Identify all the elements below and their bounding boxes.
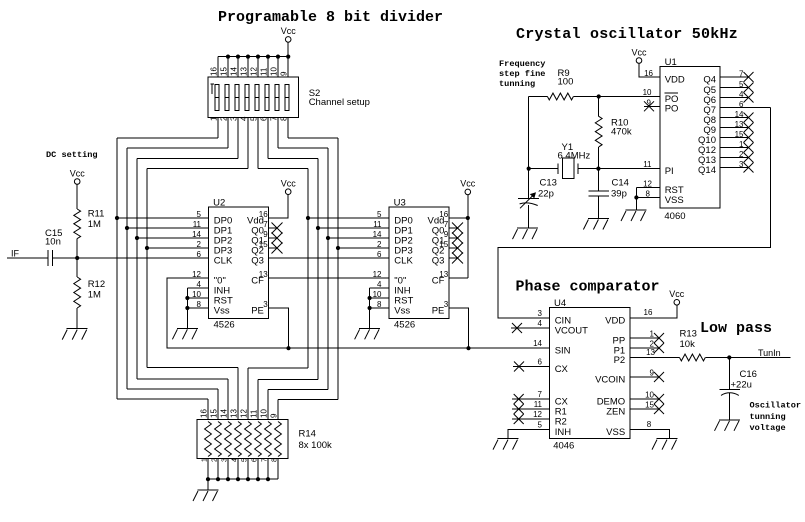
svg-text:8: 8 bbox=[646, 190, 651, 199]
wire DP taps to U3 bbox=[308, 218, 389, 248]
svg-text:SIN: SIN bbox=[555, 345, 571, 356]
svg-text:15: 15 bbox=[735, 130, 744, 139]
no-connect X U3 Q2 bbox=[449, 243, 463, 254]
svg-text:6.4MHz: 6.4MHz bbox=[558, 151, 591, 162]
svg-text:5: 5 bbox=[242, 458, 249, 462]
svg-text:7: 7 bbox=[739, 69, 744, 78]
svg-text:PI: PI bbox=[665, 166, 674, 177]
svg-text:8x 100k: 8x 100k bbox=[299, 440, 333, 451]
svg-text:1: 1 bbox=[202, 458, 209, 462]
svg-text:9: 9 bbox=[650, 369, 655, 378]
svg-text:7: 7 bbox=[263, 220, 268, 229]
wire S2 bottom pin drops bbox=[218, 118, 288, 169]
junction dot U3 PE rail bbox=[466, 346, 470, 350]
power Vcc (U4 VDD) bbox=[669, 289, 685, 305]
no-connect X U4 PP bbox=[630, 330, 664, 344]
wire U3 CF bbox=[449, 277, 468, 279]
svg-text:15: 15 bbox=[220, 67, 229, 76]
no-connect X U4 R1 bbox=[512, 404, 549, 414]
svg-text:100: 100 bbox=[558, 76, 574, 87]
svg-text:PE: PE bbox=[251, 305, 264, 316]
no-connect X U2 Q1 bbox=[269, 233, 283, 244]
svg-text:10n: 10n bbox=[45, 237, 61, 248]
svg-text:12: 12 bbox=[250, 67, 259, 76]
wire DP taps to U2 bbox=[117, 218, 209, 248]
junction dots U2 RST Vss bbox=[185, 296, 189, 310]
svg-text:14: 14 bbox=[192, 230, 201, 239]
ic U3 4526 bbox=[373, 198, 450, 331]
svg-text:11: 11 bbox=[534, 400, 543, 409]
U1 pin names bbox=[665, 74, 716, 206]
svg-text:P2: P2 bbox=[614, 355, 626, 366]
svg-text:INH: INH bbox=[555, 427, 572, 438]
ground (C16) bbox=[715, 420, 741, 431]
svg-text:IF: IF bbox=[11, 249, 20, 259]
ic U1 4060 bbox=[660, 57, 720, 222]
svg-text:2: 2 bbox=[377, 240, 382, 249]
svg-text:7: 7 bbox=[538, 390, 543, 399]
svg-text:15: 15 bbox=[439, 240, 448, 249]
svg-text:12: 12 bbox=[533, 410, 542, 419]
capacitor C16 22u bbox=[719, 358, 740, 420]
junction dots on S2 bus bbox=[226, 55, 290, 59]
svg-text:470k: 470k bbox=[611, 126, 632, 137]
pin stub U1 Q (3) bbox=[720, 160, 754, 173]
resistor R9 100 bbox=[529, 93, 660, 100]
wire nest upper-left horizontals bbox=[117, 138, 248, 168]
svg-text:Channel setup: Channel setup bbox=[309, 97, 370, 108]
svg-text:U3: U3 bbox=[394, 198, 406, 209]
ground (R12) bbox=[62, 329, 88, 340]
svg-text:11: 11 bbox=[250, 409, 259, 418]
pin numbers 16..9 on R14 top bbox=[200, 409, 279, 418]
switch S2 (DIP-8) bbox=[208, 77, 299, 118]
svg-text:Q3: Q3 bbox=[432, 255, 445, 266]
svg-text:11: 11 bbox=[643, 160, 652, 169]
svg-text:Vcc: Vcc bbox=[281, 179, 297, 189]
wire drops to R14 pins bbox=[208, 368, 278, 420]
capacitor C14 39p bbox=[589, 169, 610, 219]
power Vcc (S2 pullup) bbox=[281, 26, 297, 42]
pin numbers 1..8 on S2 bottom bbox=[210, 116, 289, 121]
svg-text:tunning: tunning bbox=[499, 79, 535, 89]
svg-text:R11: R11 bbox=[88, 209, 105, 220]
wire U1 RST/VSS bracket bbox=[636, 188, 660, 211]
svg-text:step fine: step fine bbox=[499, 69, 545, 79]
wire U4 VDD to Vcc bbox=[630, 305, 677, 318]
svg-text:16: 16 bbox=[259, 210, 268, 219]
svg-text:4: 4 bbox=[538, 319, 543, 328]
svg-text:13: 13 bbox=[230, 409, 239, 418]
svg-text:3: 3 bbox=[230, 116, 239, 121]
no-connect X U2 Q0 bbox=[269, 223, 283, 234]
no-connect X U4 CX6 bbox=[513, 362, 549, 372]
pin stub U1 Q (15) bbox=[720, 130, 754, 143]
junction dot R9/R10 bbox=[597, 94, 601, 98]
svg-text:11: 11 bbox=[193, 220, 202, 229]
svg-text:CLK: CLK bbox=[394, 255, 413, 266]
wire U4 P2 to R13 bbox=[630, 357, 680, 359]
svg-text:10: 10 bbox=[260, 409, 269, 418]
ground (U4 INH) bbox=[493, 439, 519, 450]
wire U4 VSS to ground bbox=[630, 430, 669, 439]
svg-text:Low pass: Low pass bbox=[700, 320, 772, 337]
svg-text:1M: 1M bbox=[88, 290, 101, 301]
junction dot lowpass bbox=[727, 355, 731, 359]
svg-text:PO: PO bbox=[665, 104, 679, 115]
svg-text:4046: 4046 bbox=[553, 441, 574, 452]
wire nest right verticals bbox=[308, 138, 338, 399]
svg-text:16: 16 bbox=[200, 409, 209, 418]
svg-text:15: 15 bbox=[645, 401, 654, 410]
resistor R12 1M bbox=[74, 258, 81, 308]
svg-text:14: 14 bbox=[220, 409, 229, 418]
pin stub U1 Q (5) bbox=[720, 80, 754, 93]
wire Vcc down to U3 CF bbox=[467, 195, 469, 278]
junction dots U2 DP taps bbox=[115, 216, 149, 250]
svg-text:R14: R14 bbox=[299, 429, 316, 440]
no-connect X U3 Q1 bbox=[449, 233, 463, 244]
svg-text:39p: 39p bbox=[611, 189, 627, 200]
svg-text:7: 7 bbox=[270, 116, 279, 121]
pin numbers 16..9 on S2 top bbox=[210, 67, 289, 76]
svg-text:Vcc: Vcc bbox=[281, 26, 297, 36]
ic U4 4046 bbox=[549, 298, 630, 452]
svg-text:R12: R12 bbox=[88, 279, 105, 290]
resistor network R14 8x 100k bbox=[197, 420, 288, 459]
wire U1 Q7 to U4 CIN bbox=[498, 108, 770, 319]
svg-text:4526: 4526 bbox=[214, 319, 235, 330]
wire R11 to junction bbox=[76, 239, 78, 258]
svg-text:U4: U4 bbox=[554, 298, 566, 309]
wire nest upper-right horizontals bbox=[258, 138, 338, 168]
wire nest lower-left horizontals bbox=[117, 368, 238, 400]
svg-text:2: 2 bbox=[212, 458, 219, 462]
svg-text:9: 9 bbox=[444, 230, 449, 239]
svg-text:2: 2 bbox=[197, 240, 202, 249]
crystal Y1 6.4MHz bbox=[558, 158, 578, 178]
svg-text:VDD: VDD bbox=[605, 315, 625, 326]
wire U2 "0" to rail bbox=[167, 278, 209, 348]
svg-text:22p: 22p bbox=[538, 188, 554, 199]
svg-text:6: 6 bbox=[538, 358, 543, 367]
svg-text:6: 6 bbox=[252, 458, 259, 462]
svg-text:13: 13 bbox=[240, 67, 249, 76]
resistor R11 1M bbox=[74, 209, 81, 239]
svg-text:16: 16 bbox=[210, 67, 219, 76]
svg-text:16: 16 bbox=[644, 308, 653, 317]
svg-text:11: 11 bbox=[373, 220, 382, 229]
svg-text:10: 10 bbox=[270, 67, 279, 76]
pin stub U1 Q (14) bbox=[720, 110, 754, 123]
svg-text:2: 2 bbox=[220, 116, 229, 121]
svg-text:9: 9 bbox=[270, 413, 279, 418]
svg-text:DC setting: DC setting bbox=[46, 150, 98, 160]
ground (C14) bbox=[583, 219, 609, 230]
junction dot U2 PE rail bbox=[286, 346, 290, 350]
svg-text:Oscillator: Oscillator bbox=[750, 401, 802, 411]
wire R12 to ground bbox=[76, 308, 78, 329]
svg-text:6: 6 bbox=[739, 100, 744, 109]
svg-text:4526: 4526 bbox=[394, 319, 415, 330]
svg-text:CX: CX bbox=[555, 364, 569, 375]
wire U2 PE down to rail bbox=[269, 308, 289, 348]
svg-text:3: 3 bbox=[263, 300, 268, 309]
svg-text:4: 4 bbox=[240, 116, 249, 121]
junction dot DC bias node bbox=[75, 256, 79, 260]
svg-text:Vss: Vss bbox=[394, 305, 410, 316]
wire U3 Vdd bbox=[449, 217, 468, 219]
svg-text:1M: 1M bbox=[88, 219, 101, 230]
svg-text:1: 1 bbox=[210, 116, 219, 121]
svg-text:8: 8 bbox=[272, 458, 279, 462]
svg-text:9: 9 bbox=[280, 71, 289, 76]
no-connect X U4 ZEN bbox=[630, 401, 664, 415]
wire U4 INH to ground bbox=[508, 430, 549, 439]
svg-text:VSS: VSS bbox=[606, 427, 625, 438]
svg-text:tunning: tunning bbox=[750, 412, 786, 422]
svg-text:12: 12 bbox=[240, 409, 249, 418]
svg-text:6: 6 bbox=[260, 116, 269, 121]
svg-text:16: 16 bbox=[439, 210, 448, 219]
svg-text:Frequency: Frequency bbox=[499, 59, 545, 69]
pin stub U1 Q (6) bbox=[720, 100, 770, 109]
svg-text:+22u: +22u bbox=[731, 380, 752, 391]
svg-text:10: 10 bbox=[643, 88, 652, 97]
ground (U1) bbox=[621, 210, 647, 221]
ic U2 4526 bbox=[192, 198, 269, 331]
junction dots U3 DP taps bbox=[306, 216, 340, 250]
no-connect X U4 CX7 bbox=[512, 394, 549, 404]
svg-text:4: 4 bbox=[232, 458, 239, 462]
svg-text:13: 13 bbox=[735, 120, 744, 129]
no-connect X U3 Q3 bbox=[449, 253, 463, 264]
svg-text:VSS: VSS bbox=[665, 195, 684, 206]
svg-text:15: 15 bbox=[210, 409, 219, 418]
junction dot U3 Vdd bbox=[466, 216, 470, 220]
wire U3 PE down to rail bbox=[449, 308, 468, 348]
svg-text:7: 7 bbox=[444, 220, 449, 229]
svg-text:Vcc: Vcc bbox=[669, 289, 685, 299]
junction dot R10/C14/PI bbox=[596, 167, 600, 171]
wire R14 bottom pins to bus bbox=[208, 459, 278, 480]
pin stub U1 Q (13) bbox=[720, 120, 754, 133]
svg-text:voltage: voltage bbox=[750, 423, 786, 433]
svg-text:Phase comparator: Phase comparator bbox=[516, 279, 660, 296]
resistor R10 470k bbox=[595, 97, 602, 169]
svg-text:R2: R2 bbox=[555, 416, 567, 427]
wire U3 INH/RST/Vss bracket bbox=[370, 288, 389, 328]
no-connect X U4 DEMO bbox=[630, 391, 664, 405]
svg-text:14: 14 bbox=[373, 230, 382, 239]
capacitor C13 22p variable bbox=[518, 192, 539, 208]
ground (U4 VSS) bbox=[652, 439, 678, 450]
svg-text:5: 5 bbox=[377, 210, 382, 219]
no-connect X U1 PO bbox=[644, 101, 660, 111]
svg-text:13: 13 bbox=[439, 270, 448, 279]
svg-text:5: 5 bbox=[538, 421, 543, 430]
svg-text:13: 13 bbox=[259, 270, 268, 279]
no-connect X U4 P1 bbox=[630, 340, 664, 354]
no-connect X U2 Q2 bbox=[269, 243, 283, 254]
ground (C13) bbox=[513, 228, 539, 239]
wire nest left verticals bbox=[117, 138, 147, 399]
no-connect X U4 VCOIN bbox=[630, 369, 664, 383]
pin stub U1 Q (4) bbox=[720, 90, 754, 103]
junction dots R14 ground bus bbox=[206, 477, 270, 481]
svg-text:9: 9 bbox=[263, 230, 268, 239]
svg-text:C14: C14 bbox=[612, 177, 629, 188]
no-connect X U4 VCOUT bbox=[511, 323, 549, 333]
wire Vcc to U1 VDD bbox=[639, 63, 660, 77]
svg-text:C13: C13 bbox=[540, 177, 557, 188]
U4 left pin numbers bbox=[533, 309, 542, 430]
wire R13 to TunIn bbox=[705, 357, 790, 359]
power Vcc (U3 Vdd/CF) bbox=[460, 179, 476, 195]
wire S2 top bus bbox=[218, 57, 288, 77]
wire left branch (R9 to Y1/C13) bbox=[528, 97, 530, 199]
svg-text:2: 2 bbox=[739, 150, 744, 159]
svg-text:13: 13 bbox=[646, 348, 655, 357]
wire nest lower-right horizontals bbox=[248, 368, 338, 399]
svg-text:12: 12 bbox=[643, 180, 652, 189]
svg-text:9: 9 bbox=[647, 98, 652, 107]
svg-text:Vcc: Vcc bbox=[460, 179, 476, 189]
svg-text:6: 6 bbox=[377, 250, 382, 259]
svg-text:Vcc: Vcc bbox=[631, 47, 647, 57]
svg-text:Vss: Vss bbox=[214, 305, 230, 316]
svg-text:3: 3 bbox=[739, 160, 744, 169]
wire rail "0"/PE to U4 SIN bbox=[167, 347, 549, 349]
svg-text:3: 3 bbox=[444, 300, 449, 309]
ground (U3) bbox=[355, 328, 381, 339]
capacitor C15 10n bbox=[48, 250, 53, 266]
svg-text:CLK: CLK bbox=[214, 255, 233, 266]
wire U2 Q3 to U3 CLK bbox=[269, 257, 389, 259]
svg-text:14: 14 bbox=[735, 110, 744, 119]
svg-text:VDD: VDD bbox=[665, 74, 685, 85]
svg-text:12: 12 bbox=[373, 270, 382, 279]
no-connect X U3 Q0 bbox=[449, 223, 463, 234]
pin stub U1 Q (1) bbox=[720, 140, 754, 153]
wire Vcc to bus bbox=[287, 42, 289, 56]
wire R14 bus to ground bbox=[207, 479, 209, 490]
power Vcc (U2 Vdd) bbox=[281, 179, 297, 195]
junction dot U1 VSS bbox=[634, 195, 638, 199]
junction dot Y1 left bbox=[527, 167, 531, 171]
svg-text:ZEN: ZEN bbox=[606, 406, 625, 417]
svg-text:16: 16 bbox=[644, 69, 653, 78]
wire Y1 right to U1 PI bbox=[578, 168, 660, 170]
svg-text:5: 5 bbox=[739, 80, 744, 89]
resistor R13 10k bbox=[680, 354, 706, 361]
svg-text:VCOUT: VCOUT bbox=[555, 325, 588, 336]
wire C15 to U2 CLK bbox=[53, 257, 209, 259]
svg-text:8: 8 bbox=[647, 420, 652, 429]
svg-text:C16: C16 bbox=[740, 369, 757, 380]
svg-text:TunIn: TunIn bbox=[758, 348, 781, 358]
svg-text:7: 7 bbox=[262, 458, 269, 462]
svg-text:14: 14 bbox=[533, 339, 542, 348]
pin stub U1 Q (7) bbox=[720, 69, 754, 82]
no-connect X U4 R2 bbox=[512, 414, 549, 424]
svg-text:10k: 10k bbox=[680, 339, 696, 350]
svg-text:11: 11 bbox=[260, 67, 269, 76]
junction dots U3 RST Vss bbox=[368, 296, 372, 310]
svg-text:U2: U2 bbox=[213, 198, 225, 209]
svg-text:3: 3 bbox=[538, 309, 543, 318]
svg-text:U1: U1 bbox=[665, 57, 677, 68]
ground (U2) bbox=[172, 328, 198, 339]
svg-text:10: 10 bbox=[645, 391, 654, 400]
wire IF to C15 bbox=[7, 257, 48, 259]
svg-text:5: 5 bbox=[197, 210, 202, 219]
svg-text:15: 15 bbox=[259, 240, 268, 249]
ground (R14) bbox=[193, 490, 219, 501]
svg-text:Crystal oscillator 50kHz: Crystal oscillator 50kHz bbox=[516, 26, 738, 43]
svg-text:4: 4 bbox=[739, 90, 744, 99]
svg-text:4060: 4060 bbox=[664, 211, 685, 222]
svg-text:Q4: Q4 bbox=[703, 74, 716, 85]
pin numbers 1..8 on R14 bottom bbox=[202, 458, 279, 462]
wire U2 CF to U3 "0" bbox=[269, 277, 389, 279]
U4 pin names bbox=[555, 315, 626, 438]
svg-text:Q14: Q14 bbox=[698, 165, 716, 176]
svg-text:Q3: Q3 bbox=[251, 255, 264, 266]
svg-text:6: 6 bbox=[197, 250, 202, 259]
svg-text:Programable 8 bit divider: Programable 8 bit divider bbox=[218, 9, 443, 26]
svg-text:1: 1 bbox=[650, 330, 655, 339]
pin stub U1 Q (2) bbox=[720, 150, 754, 163]
svg-text:Vcc: Vcc bbox=[70, 168, 86, 178]
wire U2 INH/RST/Vss bracket bbox=[187, 288, 208, 328]
svg-text:VCOIN: VCOIN bbox=[595, 374, 625, 385]
svg-text:1: 1 bbox=[739, 140, 744, 149]
svg-text:3: 3 bbox=[222, 458, 229, 462]
wire Y1 left bbox=[529, 168, 559, 170]
svg-text:5: 5 bbox=[250, 116, 259, 121]
power Vcc (R11) bbox=[70, 168, 86, 184]
svg-text:14: 14 bbox=[230, 67, 239, 76]
svg-text:PE: PE bbox=[432, 305, 445, 316]
wire C13 to ground bbox=[528, 205, 530, 228]
svg-text:8: 8 bbox=[280, 116, 289, 121]
wire U2 Vdd to Vcc bbox=[269, 195, 289, 219]
power Vcc (U1) bbox=[631, 47, 647, 63]
wire Vcc to R11 bbox=[76, 184, 78, 209]
